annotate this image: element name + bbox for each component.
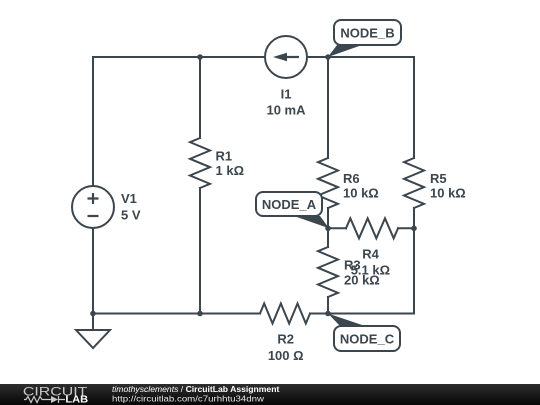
wire R2 to NODE_C [310, 313, 328, 315]
wire R1 column upper [199, 57, 201, 138]
resistor R2 [260, 304, 310, 324]
svg-text:http://circuitlab.com/c7urhhtu: http://circuitlab.com/c7urhhtu34dnw [112, 393, 265, 403]
node NODE_A pointer [294, 216, 329, 228]
footer bar [0, 384, 540, 405]
V1 minus sign [88, 215, 99, 217]
I1 arrow line [284, 56, 299, 58]
svg-text:R5: R5 [430, 171, 447, 186]
node NODE_B label box [334, 20, 401, 45]
node C junction dot [325, 311, 331, 317]
wire bottom-right horizontal [328, 313, 414, 315]
node NODE_C label box [334, 326, 400, 351]
svg-text:NODE_B: NODE_B [340, 26, 394, 41]
V1 plus sign [88, 57, 300, 216]
current source I1 [265, 36, 307, 78]
svg-text:5 V: 5 V [121, 208, 141, 223]
wire right column upper [413, 57, 415, 158]
resistor R5 [404, 158, 424, 208]
resistor R1 [190, 138, 210, 188]
wire left vertical upper [92, 57, 94, 186]
wire R5 to R4 [413, 208, 415, 228]
wire R6 to NODE_A [327, 208, 329, 228]
node NODE_B pointer [328, 45, 362, 57]
wire R1 column lower [199, 188, 201, 314]
wire R3 stub top [327, 228, 329, 247]
svg-text:R3: R3 [344, 258, 361, 273]
svg-text:R1: R1 [216, 149, 233, 164]
svg-text:10 kΩ: 10 kΩ [343, 186, 379, 201]
wire R3 stub bottom [327, 297, 329, 314]
node junction ground [90, 311, 96, 317]
node A junction dot [325, 226, 331, 232]
resistor R6 [318, 158, 338, 208]
resistor R3 [318, 247, 338, 297]
svg-text:R2: R2 [277, 332, 294, 347]
svg-text:100 Ω: 100 Ω [268, 348, 304, 363]
svg-text:20 kΩ: 20 kΩ [344, 273, 380, 288]
wire top-left horizontal [93, 56, 265, 58]
logo resistor squiggle [24, 397, 51, 403]
node NODE_A label box [256, 192, 322, 216]
I1 arrowhead [273, 53, 287, 62]
wire R4 right stub [398, 227, 414, 229]
node junction R4 right [411, 226, 417, 232]
svg-text:NODE_C: NODE_C [340, 332, 395, 347]
svg-text:1 kΩ: 1 kΩ [216, 163, 245, 178]
svg-text:10 mA: 10 mA [266, 103, 306, 118]
node NODE_C pointer [328, 314, 365, 327]
wire left vertical lower [92, 228, 94, 314]
logo diode symbol [51, 396, 58, 403]
voltage source V1 [72, 186, 114, 228]
wire bottom-left horizontal [93, 313, 260, 315]
node junction bottom R1 [197, 311, 203, 317]
wire top-right horizontal [307, 56, 414, 58]
svg-text:V1: V1 [121, 191, 137, 206]
svg-text:NODE_A: NODE_A [262, 197, 317, 212]
node B junction dot [325, 54, 331, 60]
svg-text:I1: I1 [281, 86, 292, 101]
wire right column lower [413, 228, 415, 313]
wire R4 left stub [328, 227, 346, 229]
wire NODE_B column upper [327, 57, 329, 158]
resistor R4 [346, 218, 398, 238]
ground [76, 330, 110, 348]
svg-text:R4: R4 [362, 247, 379, 262]
svg-text:R6: R6 [343, 171, 360, 186]
ground wire stub [92, 314, 94, 331]
node junction top R1 [197, 54, 203, 60]
svg-text:10 kΩ: 10 kΩ [430, 186, 466, 201]
svg-text:LAB: LAB [65, 395, 88, 405]
